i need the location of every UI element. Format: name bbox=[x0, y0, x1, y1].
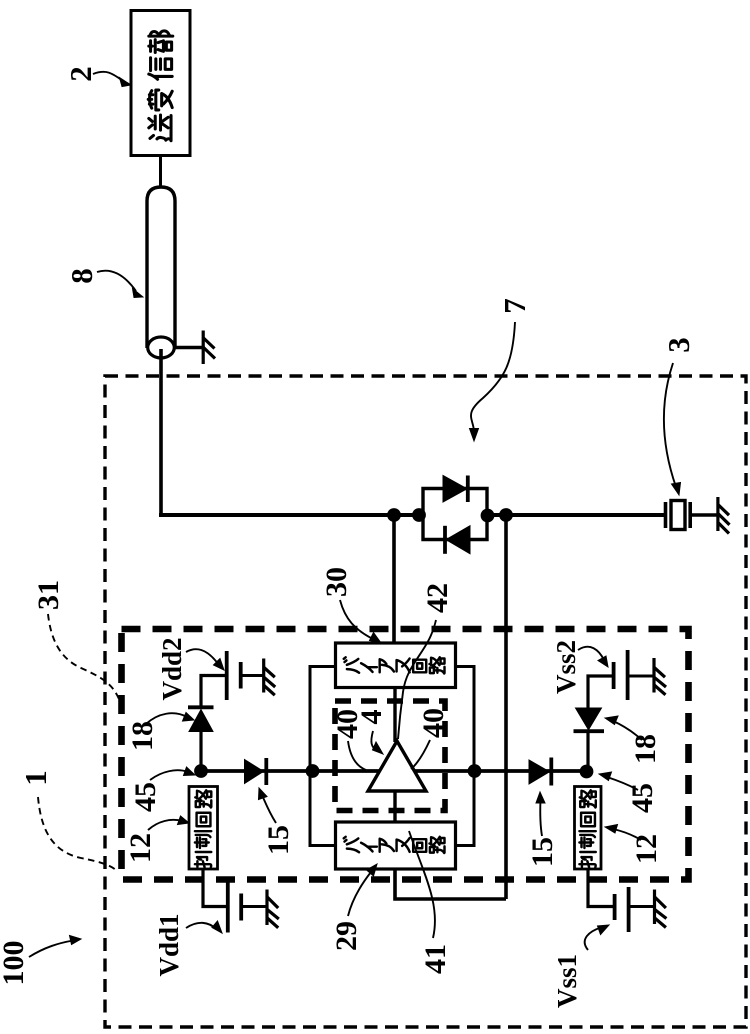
svg-text:41: 41 bbox=[419, 944, 452, 974]
svg-text:12: 12 bbox=[124, 833, 157, 863]
svg-text:31: 31 bbox=[32, 580, 65, 610]
svg-text:100: 100 bbox=[0, 941, 30, 986]
svg-text:15: 15 bbox=[526, 837, 559, 867]
svg-text:1: 1 bbox=[18, 770, 53, 786]
svg-text:40: 40 bbox=[417, 708, 450, 738]
svg-text:Vdd1: Vdd1 bbox=[154, 913, 184, 976]
svg-text:30: 30 bbox=[320, 567, 353, 597]
svg-text:29: 29 bbox=[330, 921, 363, 951]
svg-text:Vdd2: Vdd2 bbox=[157, 637, 187, 700]
svg-text:2: 2 bbox=[63, 66, 98, 82]
svg-text:18: 18 bbox=[126, 721, 159, 751]
svg-text:45: 45 bbox=[626, 783, 659, 813]
svg-text:42: 42 bbox=[421, 583, 454, 613]
svg-text:3: 3 bbox=[661, 337, 696, 353]
svg-text:18: 18 bbox=[629, 734, 662, 764]
svg-text:4: 4 bbox=[355, 710, 388, 725]
svg-text:45: 45 bbox=[129, 782, 162, 812]
svg-text:15: 15 bbox=[262, 825, 295, 855]
svg-text:12: 12 bbox=[630, 834, 663, 864]
svg-text:7: 7 bbox=[497, 298, 532, 314]
svg-text:Vss2: Vss2 bbox=[551, 640, 581, 694]
svg-text:Vss1: Vss1 bbox=[552, 954, 582, 1008]
svg-text:8: 8 bbox=[64, 268, 99, 284]
